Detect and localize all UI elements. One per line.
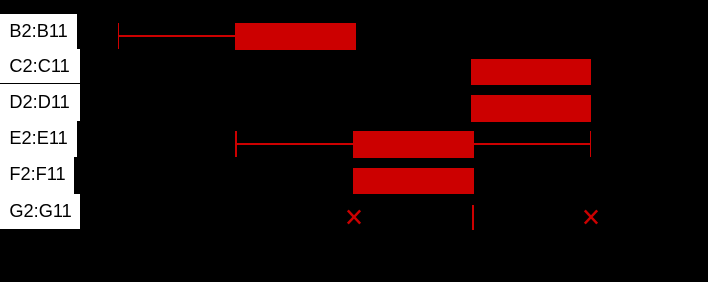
legend B2:B11 xyxy=(0,14,77,50)
legend G2:G11 xyxy=(0,194,80,229)
series B whisker left cap xyxy=(118,23,120,49)
series E whisker right cap xyxy=(590,131,592,156)
legend F2:F11 xyxy=(0,157,74,194)
series E box xyxy=(353,131,474,157)
series G marker x right xyxy=(582,208,600,226)
series G marker x left xyxy=(345,208,363,226)
series B whisker line xyxy=(119,35,236,37)
series E whisker left cap xyxy=(235,131,237,156)
series F box xyxy=(353,168,474,195)
separator line between C and D legend rows xyxy=(0,83,80,84)
series E whisker right line xyxy=(474,143,591,145)
legend D2:D11 xyxy=(0,85,80,121)
series C box xyxy=(471,59,591,85)
series D box xyxy=(471,95,591,122)
series E whisker left line xyxy=(236,143,353,145)
series B box xyxy=(235,23,355,50)
legend C2:C11 xyxy=(0,49,80,85)
legend E2:E11 xyxy=(0,121,77,157)
series G median line xyxy=(472,205,474,230)
